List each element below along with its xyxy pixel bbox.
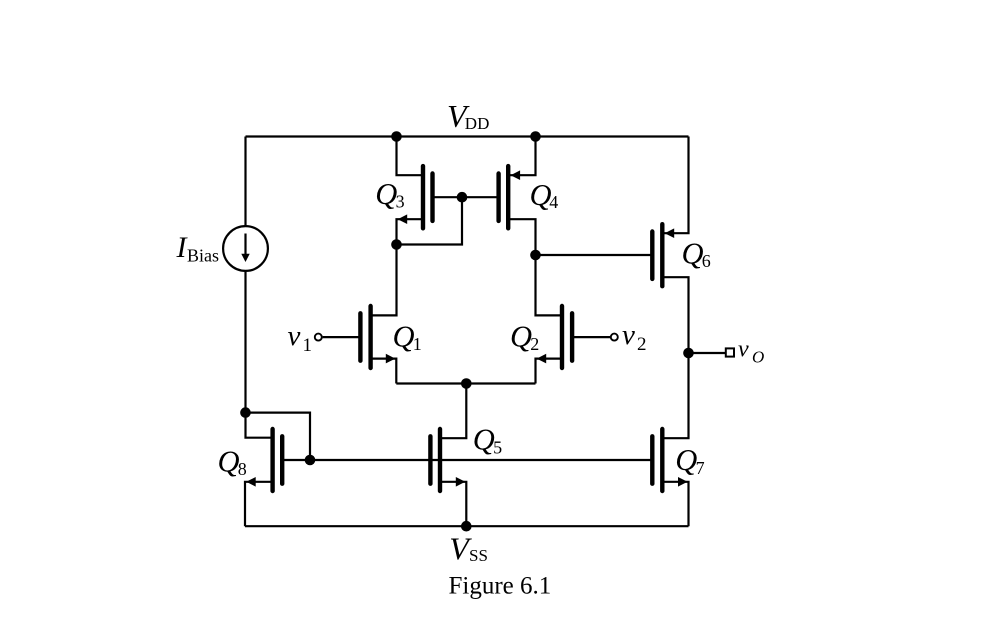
transistor Q2	[537, 306, 572, 368]
label Q1	[393, 319, 422, 354]
transistor Q5	[430, 429, 465, 491]
label Q2	[510, 319, 539, 354]
svg-text:Q: Q	[393, 319, 415, 353]
terminal vO (square)	[726, 348, 734, 356]
wire output lead vO	[689, 352, 726, 354]
terminal v1	[315, 334, 322, 341]
svg-text:8: 8	[238, 459, 247, 479]
svg-text:Bias: Bias	[187, 245, 219, 265]
wire Q6 source to VDD	[662, 137, 688, 234]
wire VSS rail	[245, 525, 689, 527]
current source IBias	[223, 226, 268, 271]
wire Q4 source to VDD	[508, 137, 535, 176]
wire Q3 source from VDD	[397, 137, 424, 176]
wire Q4 gate lead	[462, 196, 499, 198]
svg-text:DD: DD	[465, 114, 490, 133]
wire VDD rail	[246, 135, 689, 137]
svg-text:Q: Q	[473, 423, 495, 457]
label v1	[288, 320, 313, 356]
svg-text:O: O	[752, 348, 764, 367]
transistor Q8	[246, 429, 282, 491]
label Q7	[675, 443, 704, 478]
wire Q2 drain to Q4	[536, 255, 563, 315]
node Q3 drain	[391, 239, 402, 250]
transistor Q7	[652, 429, 687, 491]
node left rail Q8	[240, 407, 251, 418]
svg-text:7: 7	[696, 458, 705, 478]
node tail junction	[461, 378, 472, 389]
svg-text:Q: Q	[675, 443, 697, 477]
node VSS-Q5 junction	[461, 521, 472, 532]
wire Q3 drain	[397, 219, 424, 244]
svg-text:5: 5	[493, 437, 502, 457]
transistor Q6	[652, 224, 674, 286]
wire Q3 gate lead	[433, 196, 463, 198]
label Q6	[682, 237, 711, 272]
label Q8	[218, 444, 247, 479]
node Q8 gate	[305, 455, 316, 466]
svg-text:v: v	[288, 320, 301, 352]
svg-text:Q: Q	[510, 319, 532, 353]
svg-text:Q: Q	[375, 177, 397, 211]
transistor Q3	[398, 166, 433, 228]
label IBias	[176, 231, 220, 266]
svg-text:1: 1	[303, 335, 313, 356]
wire Q6 drain to output to Q7 drain	[662, 277, 688, 438]
wire tail rail (common source)	[396, 382, 535, 384]
transistor Q4	[499, 166, 520, 228]
wire Q2 source	[536, 359, 563, 384]
wire Q5 source to VSS	[440, 482, 466, 526]
wire left rail bottom (IBias to Q8 drain)	[246, 271, 273, 438]
svg-text:SS: SS	[469, 546, 488, 565]
label VSS	[449, 530, 488, 566]
wire gate bus Q8-Q5-Q7	[282, 459, 653, 461]
node VDD-Q3 junction	[391, 131, 402, 142]
label VDD	[447, 98, 489, 134]
node VDD-Q4 junction	[530, 131, 541, 142]
svg-text:6: 6	[702, 251, 711, 271]
node Q3-Q4 gate	[457, 192, 468, 203]
svg-text:Q: Q	[530, 178, 552, 212]
wire Q8 source to VSS	[245, 482, 273, 526]
wire Q1 source	[371, 359, 397, 384]
terminal v2	[611, 334, 618, 341]
node output	[683, 348, 694, 359]
svg-text:4: 4	[549, 192, 558, 212]
label vO	[738, 337, 764, 367]
wire Q8 gate hookup	[246, 413, 311, 460]
wire v1 gate lead	[323, 336, 361, 338]
node Q4 drain	[530, 250, 541, 261]
svg-text:3: 3	[396, 191, 405, 211]
svg-text:1: 1	[413, 334, 422, 354]
svg-text:Figure 6.1: Figure 6.1	[449, 572, 552, 599]
svg-text:Q: Q	[218, 444, 240, 478]
wire v2 gate lead	[572, 336, 610, 338]
svg-text:2: 2	[637, 334, 647, 355]
wire Q4 drain	[508, 219, 535, 255]
wire IBias top stub	[244, 225, 246, 227]
label v2	[622, 319, 647, 355]
wire node Q4 drain to Q6 gate	[536, 254, 653, 256]
wire Q7 source to VSS	[662, 482, 688, 526]
wire Q3 gate-drain tie	[397, 197, 463, 244]
label Q4	[530, 178, 559, 212]
svg-text:Q: Q	[682, 237, 704, 271]
label Q5	[473, 423, 502, 458]
svg-text:v: v	[622, 319, 635, 351]
wire Q1 drain to Q3	[371, 245, 397, 316]
svg-text:2: 2	[530, 334, 539, 354]
wire left rail top (VDD to IBias)	[244, 137, 246, 228]
wire tail to Q5 drain	[440, 384, 466, 439]
label Q3	[375, 177, 404, 212]
transistor Q1	[360, 306, 395, 368]
svg-text:v: v	[738, 337, 749, 363]
